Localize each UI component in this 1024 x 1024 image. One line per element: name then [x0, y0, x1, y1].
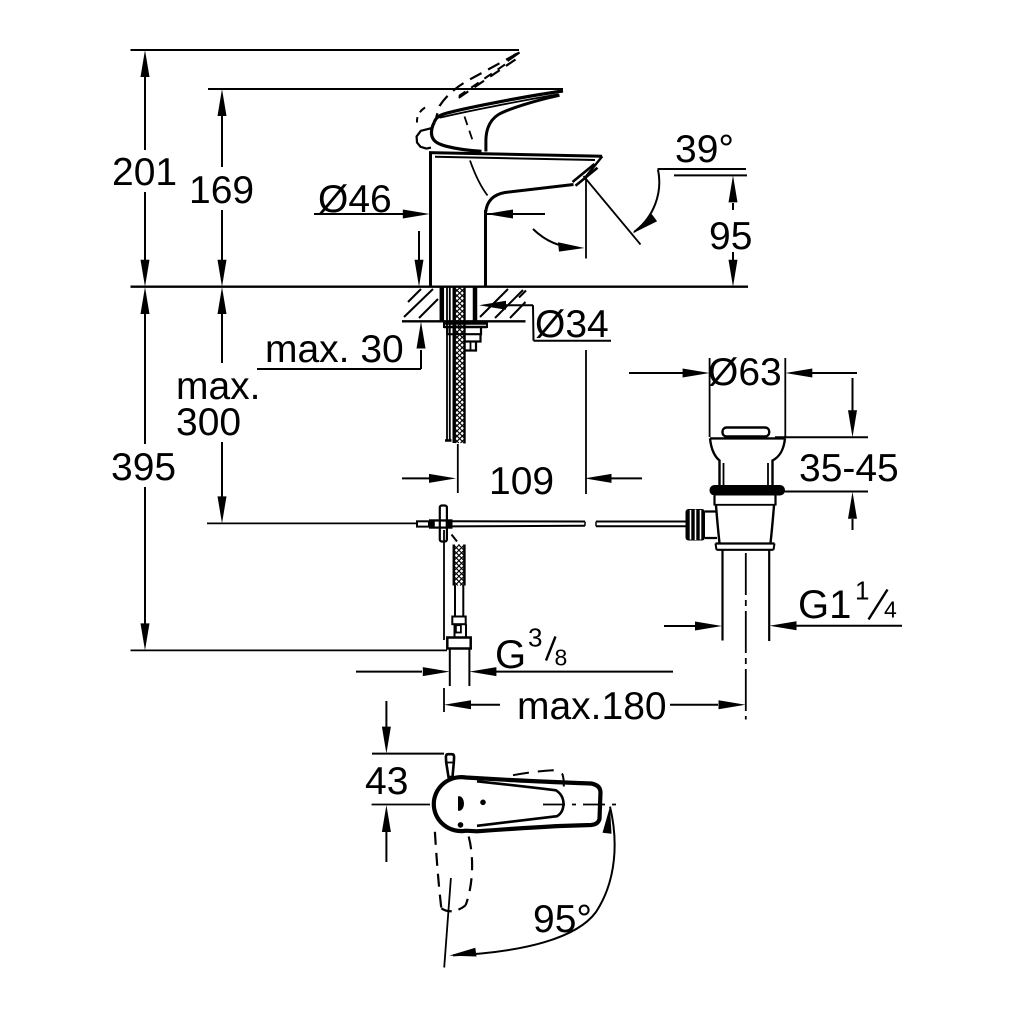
- 95 down: [729, 260, 738, 287]
- 95 up: [729, 175, 738, 202]
- svg-text:35-45: 35-45: [799, 447, 899, 490]
- svg-text:G1: G1: [798, 583, 851, 627]
- shank outer wall right: [473, 287, 478, 321]
- svg-text:43: 43: [365, 760, 408, 803]
- G114 left-pointing: [770, 621, 797, 630]
- 201 down: [141, 260, 150, 287]
- 395 down: [141, 623, 150, 650]
- 39 arc arrow: [633, 214, 658, 234]
- body barrel: [716, 506, 720, 544]
- svg-text:8: 8: [555, 645, 568, 671]
- drain centerline: [745, 553, 747, 720]
- 109 left-pointing: [585, 474, 612, 483]
- dashed rotated grip left: [435, 832, 441, 909]
- max30 up at deck bottom: [417, 322, 426, 349]
- mounting flange: [444, 321, 487, 324]
- dot 1: [480, 800, 486, 806]
- clamp stub: [417, 521, 429, 526]
- raised lever dashed edge A: [436, 54, 517, 118]
- dim O46 underline + arrows: [314, 213, 403, 215]
- 43 dim: [372, 753, 444, 755]
- O63 left-pointing: [785, 369, 812, 378]
- lever underside neck: [486, 95, 560, 151]
- grip left ear: [417, 128, 432, 149]
- knob stem: [705, 512, 717, 539]
- G114 right-pointing: [695, 622, 722, 631]
- svg-text:max.180: max.180: [517, 685, 667, 728]
- flange left side: [710, 438, 720, 485]
- 169 up: [218, 89, 227, 116]
- tab: [446, 754, 454, 777]
- svg-text:201: 201: [112, 151, 177, 194]
- O63 right-pointing: [683, 369, 710, 378]
- svg-text:4: 4: [884, 597, 897, 623]
- rod segment 1: [452, 520, 586, 522]
- G38 right-pointing: [423, 667, 450, 676]
- dim 169/max300 vertical x=222: [221, 116, 223, 167]
- dot 2: [458, 822, 464, 828]
- spout underside: [486, 185, 574, 213]
- 95 top ref line: [674, 174, 747, 176]
- tail pipe: [721, 550, 723, 641]
- pull rod line 2: [449, 287, 451, 441]
- 43 up: [382, 805, 391, 832]
- hose left edge: [453, 287, 456, 443]
- 43 down: [382, 727, 391, 754]
- max180 right-pointing: [719, 700, 746, 709]
- lower hose tube: [454, 586, 456, 617]
- G38 pipe: [449, 649, 451, 687]
- ref line 169: [208, 88, 563, 90]
- dim 201/395 vertical x=145: [144, 77, 146, 150]
- 169 down: [218, 260, 227, 287]
- deck hatching left: [404, 289, 433, 317]
- flange right side: [773, 438, 786, 485]
- svg-text:G: G: [495, 633, 526, 677]
- max180 dim: [443, 530, 445, 640]
- 201 up: [141, 50, 150, 77]
- O34 leader: [506, 304, 533, 306]
- stream line 39deg: [584, 176, 641, 245]
- svg-text:169: 169: [189, 169, 254, 212]
- connector neck: [454, 624, 456, 637]
- G1 1/4 dim: [664, 625, 696, 627]
- clamp pin: [440, 506, 447, 542]
- 109 right-pointing: [429, 474, 456, 483]
- svg-text:1: 1: [855, 576, 869, 606]
- 39 deg underline: [658, 168, 747, 170]
- knob: [686, 509, 706, 541]
- flange inner lines: [723, 463, 725, 485]
- O46 right-pointing: [403, 210, 430, 219]
- max300 up: [218, 287, 227, 314]
- G38 nut: [447, 638, 470, 649]
- body left edge: [429, 153, 432, 287]
- svg-text:max. 30: max. 30: [265, 328, 404, 371]
- 95deg arc: [453, 807, 615, 956]
- max30 down at deck top: [415, 260, 424, 287]
- flow arc arrow: [558, 242, 585, 251]
- body right edge: [484, 210, 487, 287]
- G1 1/4 label: [798, 576, 897, 628]
- 95deg arc bottom arrow: [449, 948, 476, 957]
- collar below gasket: [713, 496, 715, 506]
- svg-text:3: 3: [528, 623, 542, 653]
- G38 left-pointing: [469, 667, 496, 676]
- svg-text:395: 395: [111, 446, 176, 489]
- raised lever dashed edge C: [459, 65, 505, 97]
- 95deg arc top arrow: [603, 807, 612, 834]
- O34 left-pointing: [479, 301, 506, 310]
- 35-45 down: [848, 410, 857, 437]
- 35-45 dim: [775, 436, 868, 438]
- flange top: [710, 437, 785, 439]
- hose right edge: [464, 287, 466, 444]
- hose crosshatch braid: [454, 287, 464, 586]
- spout inner blend curve: [470, 161, 488, 196]
- max300 down: [218, 496, 227, 523]
- mounting nut step 2: [465, 334, 481, 341]
- svg-text:Ø63: Ø63: [708, 351, 782, 394]
- inner contour: [477, 781, 564, 826]
- deck hatching right: [480, 289, 508, 317]
- handle centerline: [372, 804, 430, 806]
- raised lever dashed edge B: [453, 60, 516, 103]
- body top line: [429, 153, 602, 157]
- 35-45 up: [848, 492, 857, 519]
- clamp diagonal: [452, 535, 458, 542]
- body top line 2: [435, 157, 595, 160]
- gasket: [710, 485, 786, 496]
- aerator line 1: [573, 164, 595, 182]
- 95deg ext line: [444, 878, 451, 968]
- flow arc: [533, 229, 578, 248]
- clamp block: [429, 519, 453, 528]
- 39deg arc: [634, 170, 659, 233]
- O63 dim: [629, 372, 683, 374]
- max30 underline + shafts: [257, 368, 421, 370]
- knob knurl lines: [690, 510, 692, 540]
- max180 left-pointing: [444, 700, 471, 709]
- svg-text:95°: 95°: [533, 898, 592, 941]
- hose end level line: [131, 649, 448, 651]
- cartridge D mark: [458, 796, 464, 811]
- rod segment 2: [596, 521, 686, 523]
- svg-text:95: 95: [709, 215, 752, 258]
- deck bottom line: [402, 320, 526, 322]
- bottom ring: [716, 542, 775, 544]
- pull rod line 1: [446, 287, 448, 441]
- aerator line 2: [576, 168, 598, 186]
- svg-text:Ø34: Ø34: [535, 303, 609, 346]
- 109 dim: [402, 477, 429, 479]
- deck top line: [131, 286, 749, 288]
- dashed rotated grip bottom: [441, 905, 465, 911]
- dashed detail top right: [513, 770, 564, 786]
- grip bottom outline: [431, 122, 481, 151]
- rod level extension line: [207, 522, 417, 524]
- raised lever ear dashes: [417, 108, 425, 123]
- lower hose braid edges: [453, 545, 456, 586]
- plug cap: [723, 428, 770, 437]
- hose connector: [452, 617, 465, 625]
- spout end face: [584, 156, 602, 179]
- pull rod foot: [445, 439, 452, 442]
- lever top edge: [434, 91, 563, 122]
- mounting nut step 1: [447, 328, 481, 334]
- svg-text:300: 300: [176, 401, 241, 444]
- shank outer wall left: [440, 287, 445, 321]
- raised lever tip: [508, 53, 520, 62]
- connector square: [456, 625, 461, 632]
- 95 dim shafts x=733: [732, 203, 734, 210]
- 395 up: [141, 287, 150, 314]
- O46 left-pointing: [486, 210, 513, 219]
- spout reach vertical x=586: [585, 176, 587, 259]
- dashed rotated grip right: [466, 837, 473, 906]
- top ref line 201: [131, 49, 520, 51]
- svg-text:39°: 39°: [675, 128, 734, 171]
- handle hidden line dashes: [465, 117, 474, 142]
- G 3/8 label: [495, 623, 567, 678]
- lever top edge 2: [440, 94, 559, 118]
- G3/8 dim: [356, 671, 422, 673]
- svg-text:109: 109: [489, 460, 554, 503]
- outer silhouette: [434, 777, 601, 831]
